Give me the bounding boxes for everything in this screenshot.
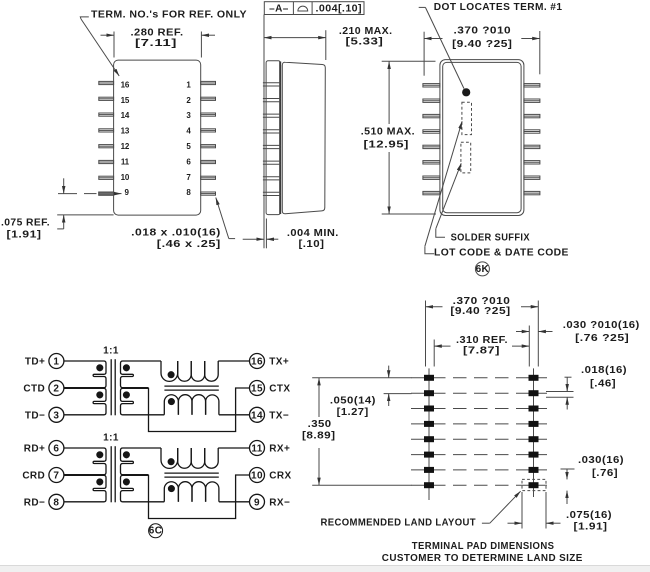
- svg-text:CRD: CRD: [22, 471, 45, 482]
- pin node TX- terminal 14: [250, 407, 265, 422]
- svg-text:10: 10: [121, 173, 130, 182]
- 6C revision balloon: [149, 524, 163, 538]
- svg-text:[1.91]: [1.91]: [574, 522, 608, 533]
- svg-text:CTX: CTX: [269, 384, 290, 395]
- svg-text:.350: .350: [308, 419, 332, 430]
- recommended land layout pad centerlines (dashed rows): [405, 378, 547, 485]
- common-mode choke T1B bottom winding: [164, 395, 219, 415]
- svg-text:CRX: CRX: [269, 471, 291, 482]
- svg-text:[.46 x .25]: [.46 x .25]: [157, 239, 221, 250]
- leader for TERM. NO.'s note pointing to pin 16: [80, 17, 119, 76]
- leader from DOT LOCATES TERM. #1 note: [419, 7, 464, 88]
- svg-text:[7.87]: [7.87]: [463, 346, 500, 357]
- solder suffix marking area (dashed): [461, 142, 471, 173]
- svg-text:.075(16): .075(16): [566, 510, 612, 521]
- leader for RECOMMENDED LAND LAYOUT: [482, 491, 521, 523]
- svg-text:TERMINAL PAD DIMENSIONS: TERMINAL PAD DIMENSIONS: [412, 541, 555, 552]
- svg-text:[1.27]: [1.27]: [337, 407, 369, 418]
- land column centerlines: [429, 368, 534, 500]
- svg-text:.018(16): .018(16): [581, 365, 627, 376]
- pin node TD+ terminal 1: [49, 354, 64, 369]
- transformer T2 core: [111, 446, 115, 502]
- svg-text:16: 16: [251, 357, 263, 368]
- svg-text:2: 2: [53, 384, 59, 395]
- transformer T1 secondary winding: [121, 361, 165, 415]
- terminal #1 locating dot: [462, 88, 470, 96]
- svg-text:.210 MAX.: .210 MAX.: [339, 26, 393, 37]
- svg-text:14: 14: [121, 111, 130, 120]
- dimension .075 REF [1.91]: [57, 178, 113, 229]
- transformer T2 primary winding (terminals 6-7-8): [64, 448, 106, 502]
- svg-text:15: 15: [121, 96, 130, 105]
- dimension .210 MAX [5.33]: [264, 30, 326, 60]
- svg-text:.018 x .010(16): .018 x .010(16): [131, 228, 221, 239]
- dimension .018(16) [.46] pad height: [546, 377, 574, 409]
- common-mode choke T1B top winding: [161, 361, 218, 381]
- feature control frame -A- flatness .004[.10]: [264, 2, 364, 15]
- pin node TX+ terminal 16: [250, 354, 265, 369]
- transformer T2 secondary winding: [121, 448, 165, 502]
- svg-text:[9.40 ?25]: [9.40 ?25]: [450, 306, 510, 317]
- pin node RX+ terminal 11: [250, 441, 265, 456]
- wire choke to pin 9: [219, 501, 250, 503]
- dimension .370 ?010 [9.40 ?25] land outer span: [426, 301, 539, 367]
- svg-text:[1.91]: [1.91]: [7, 229, 42, 240]
- dimension .370 ?010 [9.40 ?25] package width: [424, 31, 540, 76]
- svg-text:6K: 6K: [476, 264, 490, 275]
- pin node TD- terminal 3: [49, 407, 64, 422]
- U1 marking view outer body: [440, 60, 524, 216]
- svg-text:[9.40 ?25]: [9.40 ?25]: [452, 39, 512, 50]
- common-mode choke T2B bottom winding: [164, 482, 219, 502]
- dimension .280 REF [7.11]: [101, 32, 216, 58]
- svg-text:6: 6: [53, 444, 59, 455]
- svg-text:6C: 6C: [149, 526, 163, 537]
- view 1 terminal numbers: [121, 80, 192, 197]
- svg-text:RX−: RX−: [269, 497, 290, 508]
- svg-text:[7.11]: [7.11]: [135, 38, 177, 49]
- svg-text:7: 7: [53, 471, 59, 482]
- svg-text:3: 3: [53, 410, 59, 421]
- svg-text:.310 REF.: .310 REF.: [456, 335, 508, 346]
- svg-text:9: 9: [254, 497, 260, 508]
- svg-text:9: 9: [124, 188, 129, 197]
- view 1 annotation text: [1, 10, 247, 250]
- svg-text:11: 11: [251, 444, 262, 455]
- svg-text:16: 16: [121, 80, 130, 89]
- svg-text:TD−: TD−: [25, 410, 45, 421]
- svg-text:RD+: RD+: [24, 444, 45, 455]
- svg-text:1:1: 1:1: [103, 433, 119, 444]
- dimension .510 MAX [12.95] package length: [382, 61, 436, 214]
- svg-text:–A–: –A–: [269, 3, 289, 14]
- svg-text:[8.89]: [8.89]: [302, 431, 336, 442]
- svg-text:RECOMMENDED LAND LAYOUT: RECOMMENDED LAND LAYOUT: [321, 517, 477, 528]
- pin node CRD terminal 7: [49, 468, 64, 483]
- U1 marking view leads: [423, 84, 540, 195]
- svg-text:1:1: 1:1: [103, 346, 119, 357]
- svg-text:.370 ?010: .370 ?010: [454, 26, 512, 37]
- svg-text:10: 10: [251, 471, 263, 482]
- wire choke to pin 11: [218, 447, 249, 449]
- svg-text:[.76]: [.76]: [592, 468, 618, 479]
- leader for LOT CODE & DATE CODE: [425, 121, 462, 254]
- svg-text:.030 ?010(16): .030 ?010(16): [563, 320, 640, 331]
- transformer T1 core: [111, 359, 115, 415]
- wire center tap bypass to pin 15: [149, 388, 250, 432]
- svg-text:CUSTOMER TO DETERMINE LAND SIZ: CUSTOMER TO DETERMINE LAND SIZE: [382, 553, 583, 564]
- land layout annotation text: [302, 296, 640, 564]
- svg-text:.510 MAX.: .510 MAX.: [361, 127, 415, 138]
- pin node RD+ terminal 6: [49, 441, 64, 456]
- svg-text:[12.95]: [12.95]: [364, 139, 410, 150]
- view 3 annotation text: [361, 2, 569, 275]
- dimension .310 REF [7.87] land inner span: [434, 326, 529, 367]
- svg-text:TX−: TX−: [269, 410, 289, 421]
- svg-text:.004 MIN.: .004 MIN.: [287, 228, 339, 239]
- datum A extension line: [263, 15, 265, 249]
- svg-text:.004[.10]: .004[.10]: [316, 3, 363, 14]
- pin node CTX terminal 15: [250, 381, 265, 396]
- svg-text:15: 15: [251, 384, 263, 395]
- extension lines for .350 and .050 dimensions: [312, 378, 411, 485]
- common-mode choke T2B top winding: [161, 448, 218, 468]
- pin node RD- terminal 8: [49, 494, 64, 509]
- pin 9 shaded lead with reference centerline arrow: [58, 192, 122, 195]
- wire choke to pin 16: [218, 360, 249, 362]
- svg-text:8: 8: [53, 497, 59, 508]
- U1 side view leads: [263, 83, 281, 196]
- svg-text:.370 ?010: .370 ?010: [453, 296, 511, 307]
- svg-text:TERM. NO.'s FOR REF. ONLY: TERM. NO.'s FOR REF. ONLY: [91, 10, 247, 21]
- dimension .030(16) [.76] land height: [561, 469, 575, 504]
- leader for .018 x .010(16) lead size note pointing at pin 8 lead: [216, 198, 235, 239]
- common-mode choke T2B core: [164, 473, 218, 477]
- transformer T1 primary winding (terminals 1-2-3): [64, 361, 106, 415]
- bottom page strip: [0, 566, 650, 572]
- U1 marking view inner body line: [443, 62, 521, 212]
- svg-text:DOT LOCATES TERM. #1: DOT LOCATES TERM. #1: [434, 2, 563, 13]
- dimension .050(14) [1.27] pad pitch: [388, 366, 390, 406]
- svg-text:13: 13: [121, 127, 130, 136]
- common-mode choke T1B core: [164, 386, 218, 390]
- svg-text:11: 11: [121, 157, 130, 166]
- pin node RX- terminal 9: [250, 494, 265, 509]
- 6K revision balloon: [475, 262, 489, 276]
- svg-text:[5.33]: [5.33]: [346, 37, 384, 48]
- svg-text:[.46]: [.46]: [590, 378, 616, 389]
- svg-text:.050(14): .050(14): [330, 396, 376, 407]
- svg-text:[.76 ?25]: [.76 ?25]: [575, 333, 629, 344]
- svg-text:1: 1: [53, 357, 59, 368]
- svg-text:SOLDER SUFFIX: SOLDER SUFFIX: [451, 233, 530, 244]
- svg-text:.075 REF.: .075 REF.: [1, 217, 50, 228]
- svg-text:12: 12: [121, 142, 130, 151]
- svg-text:CTD: CTD: [23, 384, 45, 395]
- lot code and date code marking area (dashed): [462, 102, 472, 134]
- schematic labels: [22, 346, 291, 537]
- recommended land outline (dashed) on pad 9: [522, 479, 546, 490]
- IC package U1 top view body: [114, 60, 201, 215]
- svg-text:RX+: RX+: [269, 444, 290, 455]
- pin node CTD terminal 2: [49, 381, 64, 396]
- terminal land pads, 16 total: [424, 375, 539, 488]
- svg-text:RD−: RD−: [24, 497, 45, 508]
- svg-text:TX+: TX+: [269, 357, 289, 368]
- svg-text:LOT CODE & DATE CODE: LOT CODE & DATE CODE: [434, 247, 569, 258]
- U1 side view lead-frame strip: [266, 61, 280, 215]
- dimension .350 [8.89] land column length: [318, 378, 320, 485]
- dimension .004 MIN [.10]: [243, 219, 279, 249]
- svg-text:TD+: TD+: [25, 357, 45, 368]
- pin node CRX terminal 10: [250, 468, 265, 483]
- dimension .030 ?010(16) [.76 ?25] pad width: [516, 331, 553, 333]
- svg-text:.030(16): .030(16): [578, 455, 624, 466]
- dimension .075(16) [1.91] land length: [508, 492, 561, 529]
- wire center tap bypass to pin 10: [149, 475, 250, 519]
- U1 top-view leads, pins 16-9 left and 1-8 right: [99, 81, 216, 195]
- svg-text:14: 14: [251, 410, 263, 421]
- wire choke to pin 14: [219, 414, 250, 416]
- svg-text:[.10]: [.10]: [299, 239, 325, 250]
- view 2 annotation text: [269, 3, 392, 250]
- U1 side view molded body: [282, 62, 325, 213]
- leader for SOLDER SUFFIX: [436, 163, 461, 237]
